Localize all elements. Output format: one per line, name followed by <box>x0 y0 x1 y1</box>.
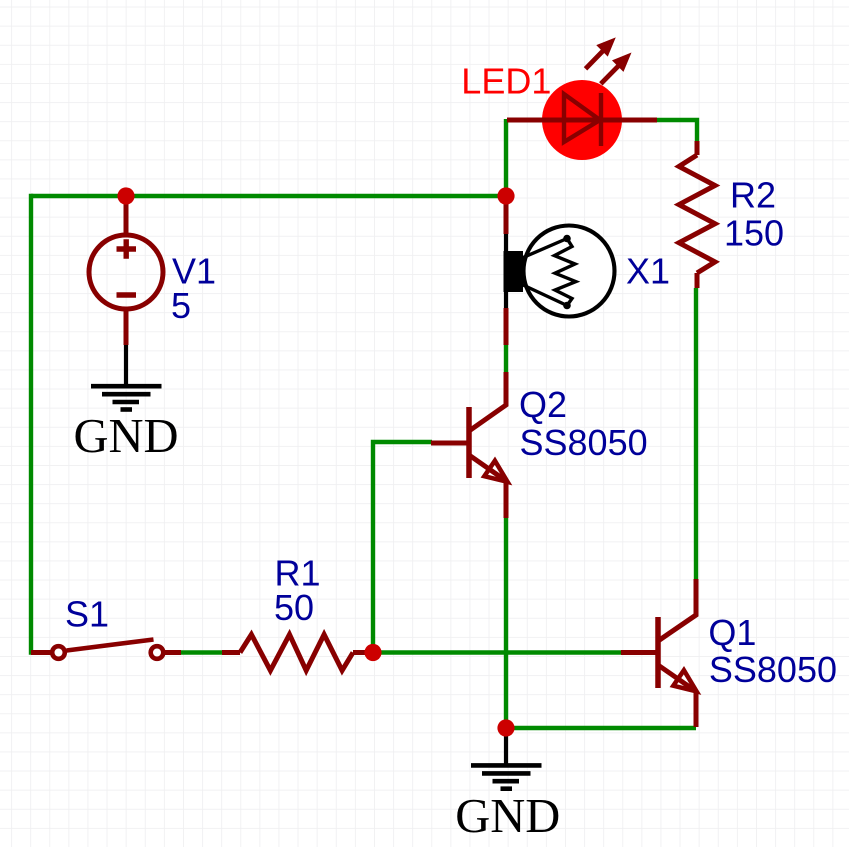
svg-text:SS8050: SS8050 <box>709 649 837 690</box>
svg-text:LED1: LED1 <box>461 61 551 102</box>
transistor Q2 <box>431 372 508 518</box>
wire LED cathode to R2 top <box>657 120 697 141</box>
LED LED1 <box>507 39 657 160</box>
switch S1 <box>31 640 181 659</box>
wire switch to R1 <box>181 650 224 654</box>
svg-text:GND: GND <box>73 410 178 463</box>
svg-text:Q1: Q1 <box>708 612 756 653</box>
junction node ground <box>497 719 514 736</box>
resistor R1 <box>222 635 366 671</box>
transistor Q1 <box>621 579 697 727</box>
junction node LED/lamp <box>497 187 514 204</box>
svg-text:150: 150 <box>724 213 784 254</box>
wire lamp to Q2 collector <box>504 345 508 374</box>
wire top horizontal net V+ <box>31 194 506 198</box>
svg-text:SS8050: SS8050 <box>520 422 648 463</box>
resistor R2 <box>679 141 715 288</box>
junction node V1 top <box>117 187 134 204</box>
wire Q2 emitter to bottom junction <box>504 518 508 728</box>
svg-text:R2: R2 <box>730 175 776 216</box>
svg-text:X1: X1 <box>626 251 670 292</box>
wire bottom ground net <box>506 726 696 730</box>
wire left vertical <box>31 194 35 653</box>
svg-text:S1: S1 <box>65 594 109 635</box>
wire Q2 base loop <box>373 442 432 652</box>
svg-text:Q2: Q2 <box>519 384 567 425</box>
svg-text:5: 5 <box>171 285 191 326</box>
wire R1 junction to Q1 base <box>373 650 621 654</box>
svg-text:GND: GND <box>455 790 560 843</box>
lamp X1 <box>504 204 615 345</box>
voltage source V1 <box>89 196 163 345</box>
ground GND (left) <box>73 345 178 463</box>
ground GND (bottom) <box>455 728 560 843</box>
wire LED anode drop <box>504 119 508 196</box>
junction node R1/Q2 base <box>364 644 381 661</box>
wire R2 bottom to Q1 collector <box>694 288 698 579</box>
svg-text:50: 50 <box>274 587 314 628</box>
